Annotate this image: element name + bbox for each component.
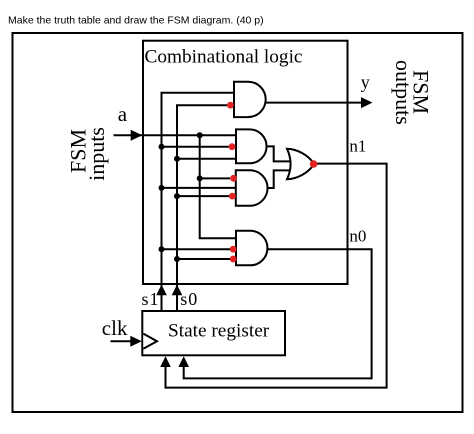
svg-text:y: y <box>361 72 370 92</box>
svg-text:inputs: inputs <box>84 127 109 181</box>
svg-text:Make the truth table and draw: Make the truth table and draw the FSM di… <box>8 14 264 26</box>
svg-text:n1: n1 <box>349 137 366 156</box>
svg-text:clk: clk <box>102 316 128 340</box>
svg-text:a: a <box>118 102 128 126</box>
svg-text:outputs: outputs <box>391 60 416 125</box>
svg-text:s1: s1 <box>142 289 160 309</box>
svg-text:n0: n0 <box>349 226 366 245</box>
svg-text:State register: State register <box>168 321 270 342</box>
svg-text:s0: s0 <box>180 289 198 309</box>
svg-text:Combinational logic: Combinational logic <box>145 46 303 67</box>
